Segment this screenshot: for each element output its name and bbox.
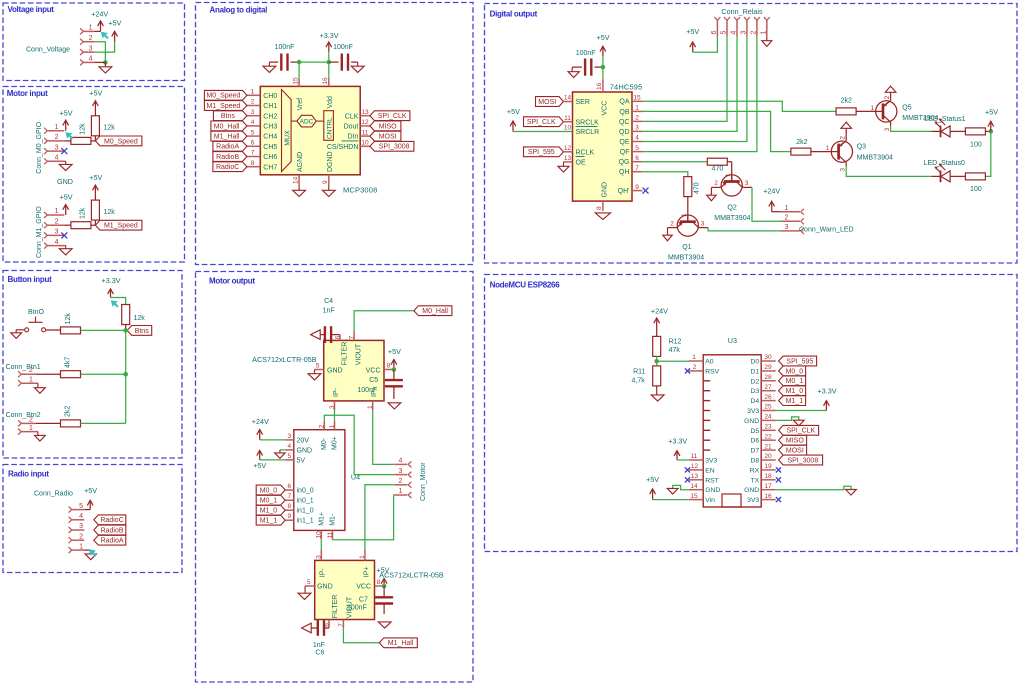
svg-text:M1-: M1- (330, 513, 337, 526)
svg-text:M0_Hall: M0_Hall (214, 123, 240, 130)
pin 24 GND (744, 414, 776, 425)
svg-text:3: 3 (740, 31, 747, 35)
svg-text:5: 5 (721, 31, 728, 35)
wire +5V to relais pin6 (693, 37, 718, 53)
svg-text:27: 27 (764, 384, 772, 391)
svg-text:6: 6 (711, 31, 718, 35)
wire GND jog (776, 417, 799, 421)
pin 2 RSV + no-connect (689, 364, 720, 375)
connector Conn_M1_GPIO (36, 206, 64, 258)
wire QF to relais 2 (643, 37, 757, 152)
svg-text:D4: D4 (750, 398, 759, 405)
svg-text:11: 11 (691, 453, 698, 460)
svg-text:6: 6 (251, 140, 255, 147)
pin 6 in0_0 + label M0_0 (256, 483, 314, 495)
svg-text:IP-: IP- (320, 568, 327, 578)
svg-text:8: 8 (596, 206, 603, 210)
svg-text:8: 8 (387, 362, 391, 369)
svg-text:R11: R11 (633, 368, 645, 375)
svg-text:4k7: 4k7 (65, 357, 72, 368)
svg-text:3: 3 (79, 523, 83, 530)
capacitor 100nF (left) (269, 44, 299, 71)
svg-text:DIn: DIn (347, 134, 358, 141)
pin 3 IP- (bottom ACS) (316, 550, 327, 577)
svg-text:Digital output: Digital output (490, 10, 538, 19)
svg-text:+5V: +5V (108, 19, 121, 28)
svg-text:VCC: VCC (356, 583, 371, 590)
svg-text:DGND: DGND (327, 151, 334, 172)
svg-text:LED_Status1: LED_Status1 (924, 116, 965, 123)
svg-text:10: 10 (564, 125, 572, 132)
pin 6 FILTER (bottom ACS) (323, 595, 339, 628)
cursor mark (89, 549, 97, 556)
resistor 12k series (64, 123, 95, 144)
svg-text:U4: U4 (351, 472, 360, 481)
wire U4 M1+ to ACS2 IP- (320, 540, 322, 550)
resistor 100 (status1) (955, 128, 990, 148)
svg-text:SRCLR: SRCLR (576, 129, 600, 136)
ground (R11) (651, 386, 664, 401)
transistor Q1 MMBT3904 (668, 215, 709, 261)
svg-text:11: 11 (564, 115, 571, 122)
wire QD to relais 4 (643, 37, 738, 132)
label M0_Hall (414, 306, 452, 316)
svg-text:2: 2 (251, 99, 255, 106)
wire VIOUT to M0_Hall (354, 311, 414, 331)
svg-text:2: 2 (29, 367, 33, 374)
svg-text:Vref: Vref (297, 98, 304, 111)
svg-text:5V: 5V (297, 457, 306, 464)
svg-text:3: 3 (701, 220, 705, 227)
wire GND jog (776, 486, 851, 490)
svg-text:9: 9 (322, 180, 329, 184)
svg-text:MMBT3904: MMBT3904 (714, 215, 750, 222)
svg-text:FILTER: FILTER (342, 342, 349, 366)
pin 5 CH4 + label M1_Hall (211, 129, 278, 141)
label MOSI + pin 14 SER (536, 95, 590, 107)
power +3.3V (right) (818, 387, 837, 411)
svg-text:29: 29 (764, 364, 772, 371)
wire 470 to Q2 base (727, 162, 731, 183)
ground (cap 595) (568, 67, 579, 77)
svg-text:7: 7 (287, 493, 291, 500)
svg-text:3: 3 (55, 229, 59, 236)
svg-text:M0_1: M0_1 (260, 498, 278, 505)
svg-text:Button input: Button input (8, 275, 53, 284)
power +3.3V (102, 276, 121, 297)
label SPI_595 + pin 12 RCLK (524, 145, 595, 157)
svg-text:2: 2 (884, 95, 891, 99)
svg-text:M1+: M1+ (318, 512, 325, 526)
ground (DGND) (322, 185, 335, 197)
svg-text:in1_1: in1_1 (297, 518, 314, 525)
svg-text:Conn_Warn_LED: Conn_Warn_LED (799, 226, 854, 233)
power +5V (LEDs) (985, 107, 998, 131)
svg-text:12: 12 (564, 145, 572, 152)
ground (84, 550, 96, 560)
wire QA to 2k2 Q5 (643, 101, 837, 111)
svg-text:15: 15 (633, 95, 641, 102)
svg-text:CH1: CH1 (263, 103, 277, 110)
pin 18 TX (751, 473, 776, 484)
resistor 100 (status0) (955, 173, 985, 193)
ground (595) (595, 213, 610, 220)
svg-text:M0_1: M0_1 (786, 378, 804, 385)
wire Vdd (328, 62, 330, 78)
svg-text:GND: GND (317, 583, 333, 590)
svg-text:VIOUT: VIOUT (356, 343, 363, 365)
svg-text:BtnO: BtnO (28, 309, 45, 316)
svg-text:SPI_CLK: SPI_CLK (786, 428, 815, 435)
pin 1 CH0 + label M0_Speed (204, 89, 277, 101)
pin 6 CH5 + label RadioA (213, 140, 278, 152)
svg-text:Vin: Vin (705, 497, 715, 504)
pin 27 D3 + label M1_0 (750, 384, 805, 396)
resistor 470 (Q2 base) (707, 158, 727, 173)
svg-text:C5: C5 (369, 377, 378, 384)
capacitor C4 1nF (320, 298, 340, 343)
svg-text:2: 2 (670, 220, 674, 227)
pin 3 20V (285, 433, 309, 445)
svg-text:16: 16 (596, 82, 603, 90)
svg-text:CH3: CH3 (263, 124, 277, 131)
svg-text:6: 6 (287, 483, 291, 490)
IC U6 ACS712 bottom body (315, 560, 375, 619)
svg-text:5: 5 (307, 579, 311, 586)
pin 4 CH3 + label M0_Hall (211, 119, 278, 131)
svg-text:SPI_595: SPI_595 (786, 358, 813, 365)
svg-text:12k: 12k (104, 209, 116, 216)
ground (AGND) (293, 185, 306, 197)
resistor R11 4.7k (632, 366, 661, 386)
wire +5V to pin5 (260, 459, 286, 461)
svg-text:20: 20 (764, 453, 772, 460)
svg-text:SPI_CLK: SPI_CLK (378, 113, 407, 120)
svg-text:3V3: 3V3 (747, 497, 759, 504)
pin 1 A0 (689, 354, 714, 365)
svg-text:GND: GND (601, 182, 608, 198)
svg-text:MMBT3904: MMBT3904 (857, 154, 893, 161)
ground (U4) (275, 450, 285, 458)
no-connect pin3 (61, 148, 67, 154)
svg-text:M0_Hall: M0_Hall (422, 308, 448, 315)
svg-text:4,7k: 4,7k (632, 377, 646, 384)
IC U3 NodeMCU body (703, 355, 761, 507)
svg-text:100: 100 (970, 186, 982, 193)
capacitor 100nF (right) (329, 44, 358, 71)
IC U5 ACS712 top body (324, 340, 384, 401)
svg-text:ADC: ADC (300, 119, 314, 126)
svg-text:9: 9 (635, 184, 639, 191)
svg-text:1: 1 (55, 208, 59, 215)
pin 9 QH' (618, 184, 643, 195)
svg-text:GND: GND (327, 367, 343, 374)
pin 23 D5 + label SPI_CLK (750, 424, 818, 436)
wire status rail (985, 131, 990, 176)
power +5V (108, 19, 121, 42)
ground (C5) (388, 403, 401, 409)
svg-text:OE: OE (576, 160, 586, 167)
svg-text:100nF: 100nF (576, 50, 596, 57)
label SPI_CLK + pin 11 SRCLK (524, 115, 600, 127)
resistor 12k (Btn0) (61, 313, 81, 334)
svg-text:16: 16 (764, 493, 772, 500)
svg-text:6: 6 (334, 335, 341, 339)
pin 8 VCC (bottom ACS) (356, 579, 384, 591)
connector Conn_Motor (394, 458, 427, 501)
svg-text:19: 19 (764, 463, 772, 470)
svg-text:MOSI: MOSI (538, 99, 556, 106)
svg-text:1: 1 (826, 145, 830, 152)
svg-text:Voltage input: Voltage input (8, 5, 55, 14)
svg-text:M0_0: M0_0 (786, 368, 804, 375)
svg-text:QE: QE (619, 139, 629, 146)
wire 470 to Q1 base (687, 197, 689, 223)
pin 11 3V3 (689, 453, 718, 464)
ground (pin14) (667, 488, 678, 494)
junction (103, 60, 108, 65)
svg-text:CLK: CLK (345, 113, 359, 120)
IC U1 74HC595 body (573, 92, 633, 201)
cursor mark (111, 300, 119, 307)
svg-text:12k: 12k (65, 313, 72, 325)
no-connect (776, 497, 781, 502)
svg-text:4: 4 (251, 119, 255, 126)
svg-text:1: 1 (785, 205, 789, 212)
svg-text:RadioA: RadioA (101, 538, 124, 545)
wire vertical bus (125, 330, 127, 423)
wire VCC (602, 67, 604, 79)
svg-text:SPI_3008: SPI_3008 (379, 144, 410, 151)
svg-text:GND: GND (744, 418, 759, 425)
pin 13 RST + no-connect (689, 473, 719, 484)
resistor 470 (Q1 base) (684, 177, 701, 197)
wire 3V3 to +3.3V (776, 410, 827, 412)
svg-text:D1: D1 (750, 368, 759, 375)
svg-text:MISO: MISO (379, 123, 397, 130)
ground (left cap) (263, 62, 276, 72)
section box Motor input (3, 87, 185, 263)
svg-text:MISO: MISO (786, 438, 804, 445)
svg-text:M1_Hall: M1_Hall (214, 134, 240, 141)
pin 7 VIOUT (bottom ACS) (338, 596, 354, 628)
svg-text:1: 1 (329, 424, 336, 428)
svg-text:M1_Speed: M1_Speed (206, 103, 240, 110)
svg-text:10: 10 (316, 531, 323, 539)
svg-text:R12: R12 (669, 338, 682, 345)
pin 8 CH7 + label RadioC (213, 160, 278, 172)
svg-text:24: 24 (764, 414, 772, 421)
svg-text:13: 13 (564, 155, 572, 162)
pin 5 GND (bottom ACS) (305, 579, 333, 591)
svg-text:3: 3 (251, 109, 255, 116)
svg-text:Conn_Btn1: Conn_Btn1 (6, 364, 41, 371)
power +5V (SRCLR) (507, 107, 520, 132)
svg-text:74HC595: 74HC595 (610, 82, 643, 91)
svg-text:M1_Speed: M1_Speed (104, 223, 138, 230)
capacitor C6 1nF (311, 620, 329, 656)
junction (654, 359, 659, 364)
svg-text:4: 4 (287, 443, 291, 450)
svg-text:U3: U3 (728, 336, 737, 345)
pin 29 D1 + label M0_0 (750, 364, 805, 376)
svg-text:CH5: CH5 (263, 144, 277, 151)
svg-text:100nF: 100nF (333, 44, 353, 51)
svg-text:Q3: Q3 (857, 143, 866, 150)
svg-text:+5V: +5V (60, 193, 73, 202)
IC U4 motor driver body (294, 430, 345, 531)
svg-text:Conn_Relais: Conn_Relais (721, 7, 763, 16)
pin 14 AGND (292, 152, 304, 185)
wire pin3 to +5V (94, 42, 114, 52)
svg-text:2k2: 2k2 (65, 406, 72, 417)
pin 2 QC (619, 115, 643, 126)
ground pin4 (59, 246, 72, 255)
resistor 12k pullup (91, 116, 115, 141)
svg-text:3: 3 (840, 168, 847, 172)
svg-text:Q2: Q2 (727, 204, 736, 211)
svg-text:D3: D3 (750, 388, 759, 395)
ground (C4) (311, 330, 321, 340)
svg-text:+3.3V: +3.3V (818, 387, 837, 396)
svg-text:M0_Speed: M0_Speed (206, 93, 240, 100)
wire VIOUT to M1_Hall (343, 628, 379, 643)
svg-text:470: 470 (693, 182, 700, 194)
wire cap bus (299, 61, 329, 63)
svg-text:5: 5 (316, 362, 320, 369)
svg-text:16: 16 (322, 77, 329, 85)
svg-text:2k2: 2k2 (841, 98, 852, 105)
transistor Q3 MMBT3904 (826, 122, 893, 172)
no-connect QH' (643, 188, 649, 194)
svg-text:1: 1 (29, 376, 33, 383)
svg-text:Q1: Q1 (682, 244, 691, 251)
pin 1 IP+ (bottom ACS) (359, 550, 370, 577)
svg-text:TX: TX (751, 477, 760, 484)
svg-text:+5V: +5V (388, 347, 401, 356)
svg-text:3: 3 (399, 468, 403, 475)
svg-text:15: 15 (292, 77, 299, 85)
ground (ACS bottom) (298, 586, 311, 599)
wire Q1 collector to Conn_Warn 3 (708, 228, 780, 231)
label M1_Speed (95, 220, 141, 230)
svg-text:4: 4 (89, 56, 93, 63)
wire gnd (U4) (280, 449, 285, 451)
svg-text:NodeMCU ESP8266: NodeMCU ESP8266 (490, 280, 561, 289)
ground (switch) (11, 330, 25, 339)
section box Analog to digital (196, 3, 474, 265)
svg-text:in1_0: in1_0 (297, 508, 314, 515)
svg-text:M1_1: M1_1 (260, 518, 278, 525)
connector Conn_Btn1 (6, 364, 41, 386)
svg-text:Radio input: Radio input (8, 470, 49, 479)
svg-text:Motor output: Motor output (209, 276, 255, 285)
pin 6 QG (619, 155, 643, 166)
wire to Btns node (81, 329, 126, 331)
svg-text:3V3: 3V3 (747, 408, 759, 415)
svg-text:Conn_M0_GPIO: Conn_M0_GPIO (36, 121, 43, 173)
pin 28 D2 + label M0_1 (750, 374, 805, 386)
resistor R12 47k (653, 329, 682, 357)
svg-text:1: 1 (79, 543, 83, 550)
svg-text:Motor input: Motor input (7, 89, 48, 98)
svg-text:1: 1 (760, 31, 767, 35)
pin 15 Vref (292, 77, 304, 111)
svg-text:2: 2 (55, 134, 59, 141)
power +24V (R12) (651, 306, 668, 328)
pin 7 QH (619, 165, 643, 176)
pin 7 in0_1 + label M0_1 (256, 493, 314, 505)
svg-text:MCP3008: MCP3008 (343, 186, 377, 195)
power +5V (U4) (253, 450, 266, 470)
svg-text:D8: D8 (750, 458, 759, 465)
svg-text:6: 6 (635, 155, 639, 162)
pin 5 GND (top ACS) (315, 362, 343, 374)
wire Q3 collector to LED_Status0 (846, 166, 931, 176)
wire switch to 12k (46, 329, 61, 331)
svg-text:M0+: M0+ (331, 436, 338, 450)
svg-text:2: 2 (840, 136, 847, 140)
power +3.3V (320, 31, 339, 62)
svg-text:QH': QH' (618, 188, 630, 195)
svg-text:+5V: +5V (253, 461, 266, 470)
svg-text:M1_Hall: M1_Hall (388, 640, 414, 647)
svg-text:1: 1 (29, 425, 33, 432)
svg-text:CH7: CH7 (263, 164, 277, 171)
wire +5V to SRCLR (513, 131, 573, 133)
pin 1 M0+ (U4 top) (329, 421, 339, 450)
LED LED_Status1 (924, 116, 965, 137)
junction (327, 60, 332, 65)
no-connect (776, 477, 781, 482)
ADC block (291, 115, 316, 127)
svg-text:3: 3 (89, 45, 93, 52)
ground (Btn2) (35, 432, 46, 441)
svg-text:3: 3 (635, 125, 639, 132)
pin 13 OE (564, 155, 586, 167)
svg-text:2: 2 (55, 218, 59, 225)
svg-text:SPI_595: SPI_595 (528, 149, 555, 156)
no-connect pin3 (61, 232, 67, 238)
wire +3.3V to 3V3 (677, 459, 689, 461)
transistor Q2 MMBT3904 (711, 175, 752, 222)
svg-text:2k2: 2k2 (796, 139, 807, 146)
svg-text:100nF: 100nF (275, 44, 295, 51)
wire QC to relais 5 (643, 37, 728, 122)
svg-text:23: 23 (764, 424, 772, 431)
resistor 2k2 (Q5) (836, 98, 876, 115)
svg-text:1: 1 (251, 89, 255, 96)
svg-text:15: 15 (690, 493, 698, 500)
pin 26 D4 + label M1_1 (750, 394, 805, 406)
svg-text:3V3: 3V3 (705, 458, 717, 465)
svg-text:4: 4 (399, 458, 403, 465)
pin 8 GND (596, 182, 608, 211)
svg-text:1nF: 1nF (323, 308, 335, 315)
pin 21 D7 + label MOSI (750, 443, 806, 455)
svg-text:17: 17 (764, 483, 772, 490)
pin 20 D8 + label SPI_3008 (750, 453, 822, 465)
svg-text:Q5: Q5 (902, 104, 911, 111)
section box Voltage input (3, 3, 185, 81)
pin 9 DGND (322, 151, 334, 184)
power +5V (bottom ACS) (376, 566, 389, 586)
power +24V (warn) (763, 187, 780, 212)
wire QE to relais 3 (643, 37, 747, 142)
svg-text:7: 7 (338, 623, 345, 627)
svg-text:12k: 12k (80, 123, 87, 135)
USB notch (722, 494, 741, 507)
